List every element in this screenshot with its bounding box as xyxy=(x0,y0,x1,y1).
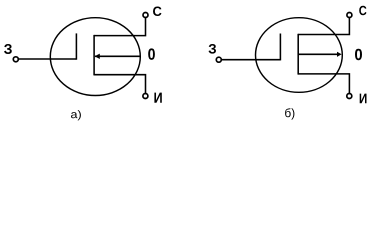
transistor VT2 envelope circle xyxy=(256,18,343,93)
wire source lead VT1 xyxy=(94,75,145,93)
gate electrode VT2 xyxy=(279,34,281,61)
source terminal node VT1 xyxy=(143,94,148,99)
wire gate lead VT2 xyxy=(222,59,280,61)
source terminal node VT2 xyxy=(347,94,352,99)
wire drain lead VT1 xyxy=(94,18,145,36)
arrow substrate VT2 pointing outward xyxy=(337,52,342,57)
label 0 (substrate terminal name, VT1) xyxy=(148,48,155,60)
label а) caption of VT1 xyxy=(71,110,81,120)
wire gate lead VT1 xyxy=(19,58,76,60)
label И (source terminal name, VT2) xyxy=(360,94,367,104)
wire drain lead VT2 xyxy=(298,18,349,35)
channel electrode VT2 xyxy=(297,34,299,75)
arrow substrate VT1 pointing at channel xyxy=(95,54,100,59)
channel electrode VT1 xyxy=(93,35,95,76)
label 0 (substrate terminal name, VT2) xyxy=(355,49,362,61)
label С (drain terminal name, VT2) xyxy=(359,6,366,15)
label З (gate terminal name, VT2) xyxy=(209,44,217,54)
label З (gate terminal name, VT1) xyxy=(4,44,12,54)
gate electrode VT1 xyxy=(75,33,77,59)
wire substrate lead VT2 xyxy=(298,53,337,55)
wire substrate lead VT1 xyxy=(95,55,140,57)
drain terminal node VT1 xyxy=(143,13,148,18)
gate terminal node VT1 xyxy=(13,57,18,62)
label И (source terminal name, VT1) xyxy=(154,93,161,103)
gate terminal node VT2 xyxy=(216,57,221,62)
label б) caption of VT2 xyxy=(285,108,294,119)
wire source lead VT2 xyxy=(298,74,349,93)
drain terminal node VT2 xyxy=(347,13,352,18)
label С (drain terminal name, VT1) xyxy=(153,7,162,17)
transistor VT1 envelope circle xyxy=(50,18,140,96)
